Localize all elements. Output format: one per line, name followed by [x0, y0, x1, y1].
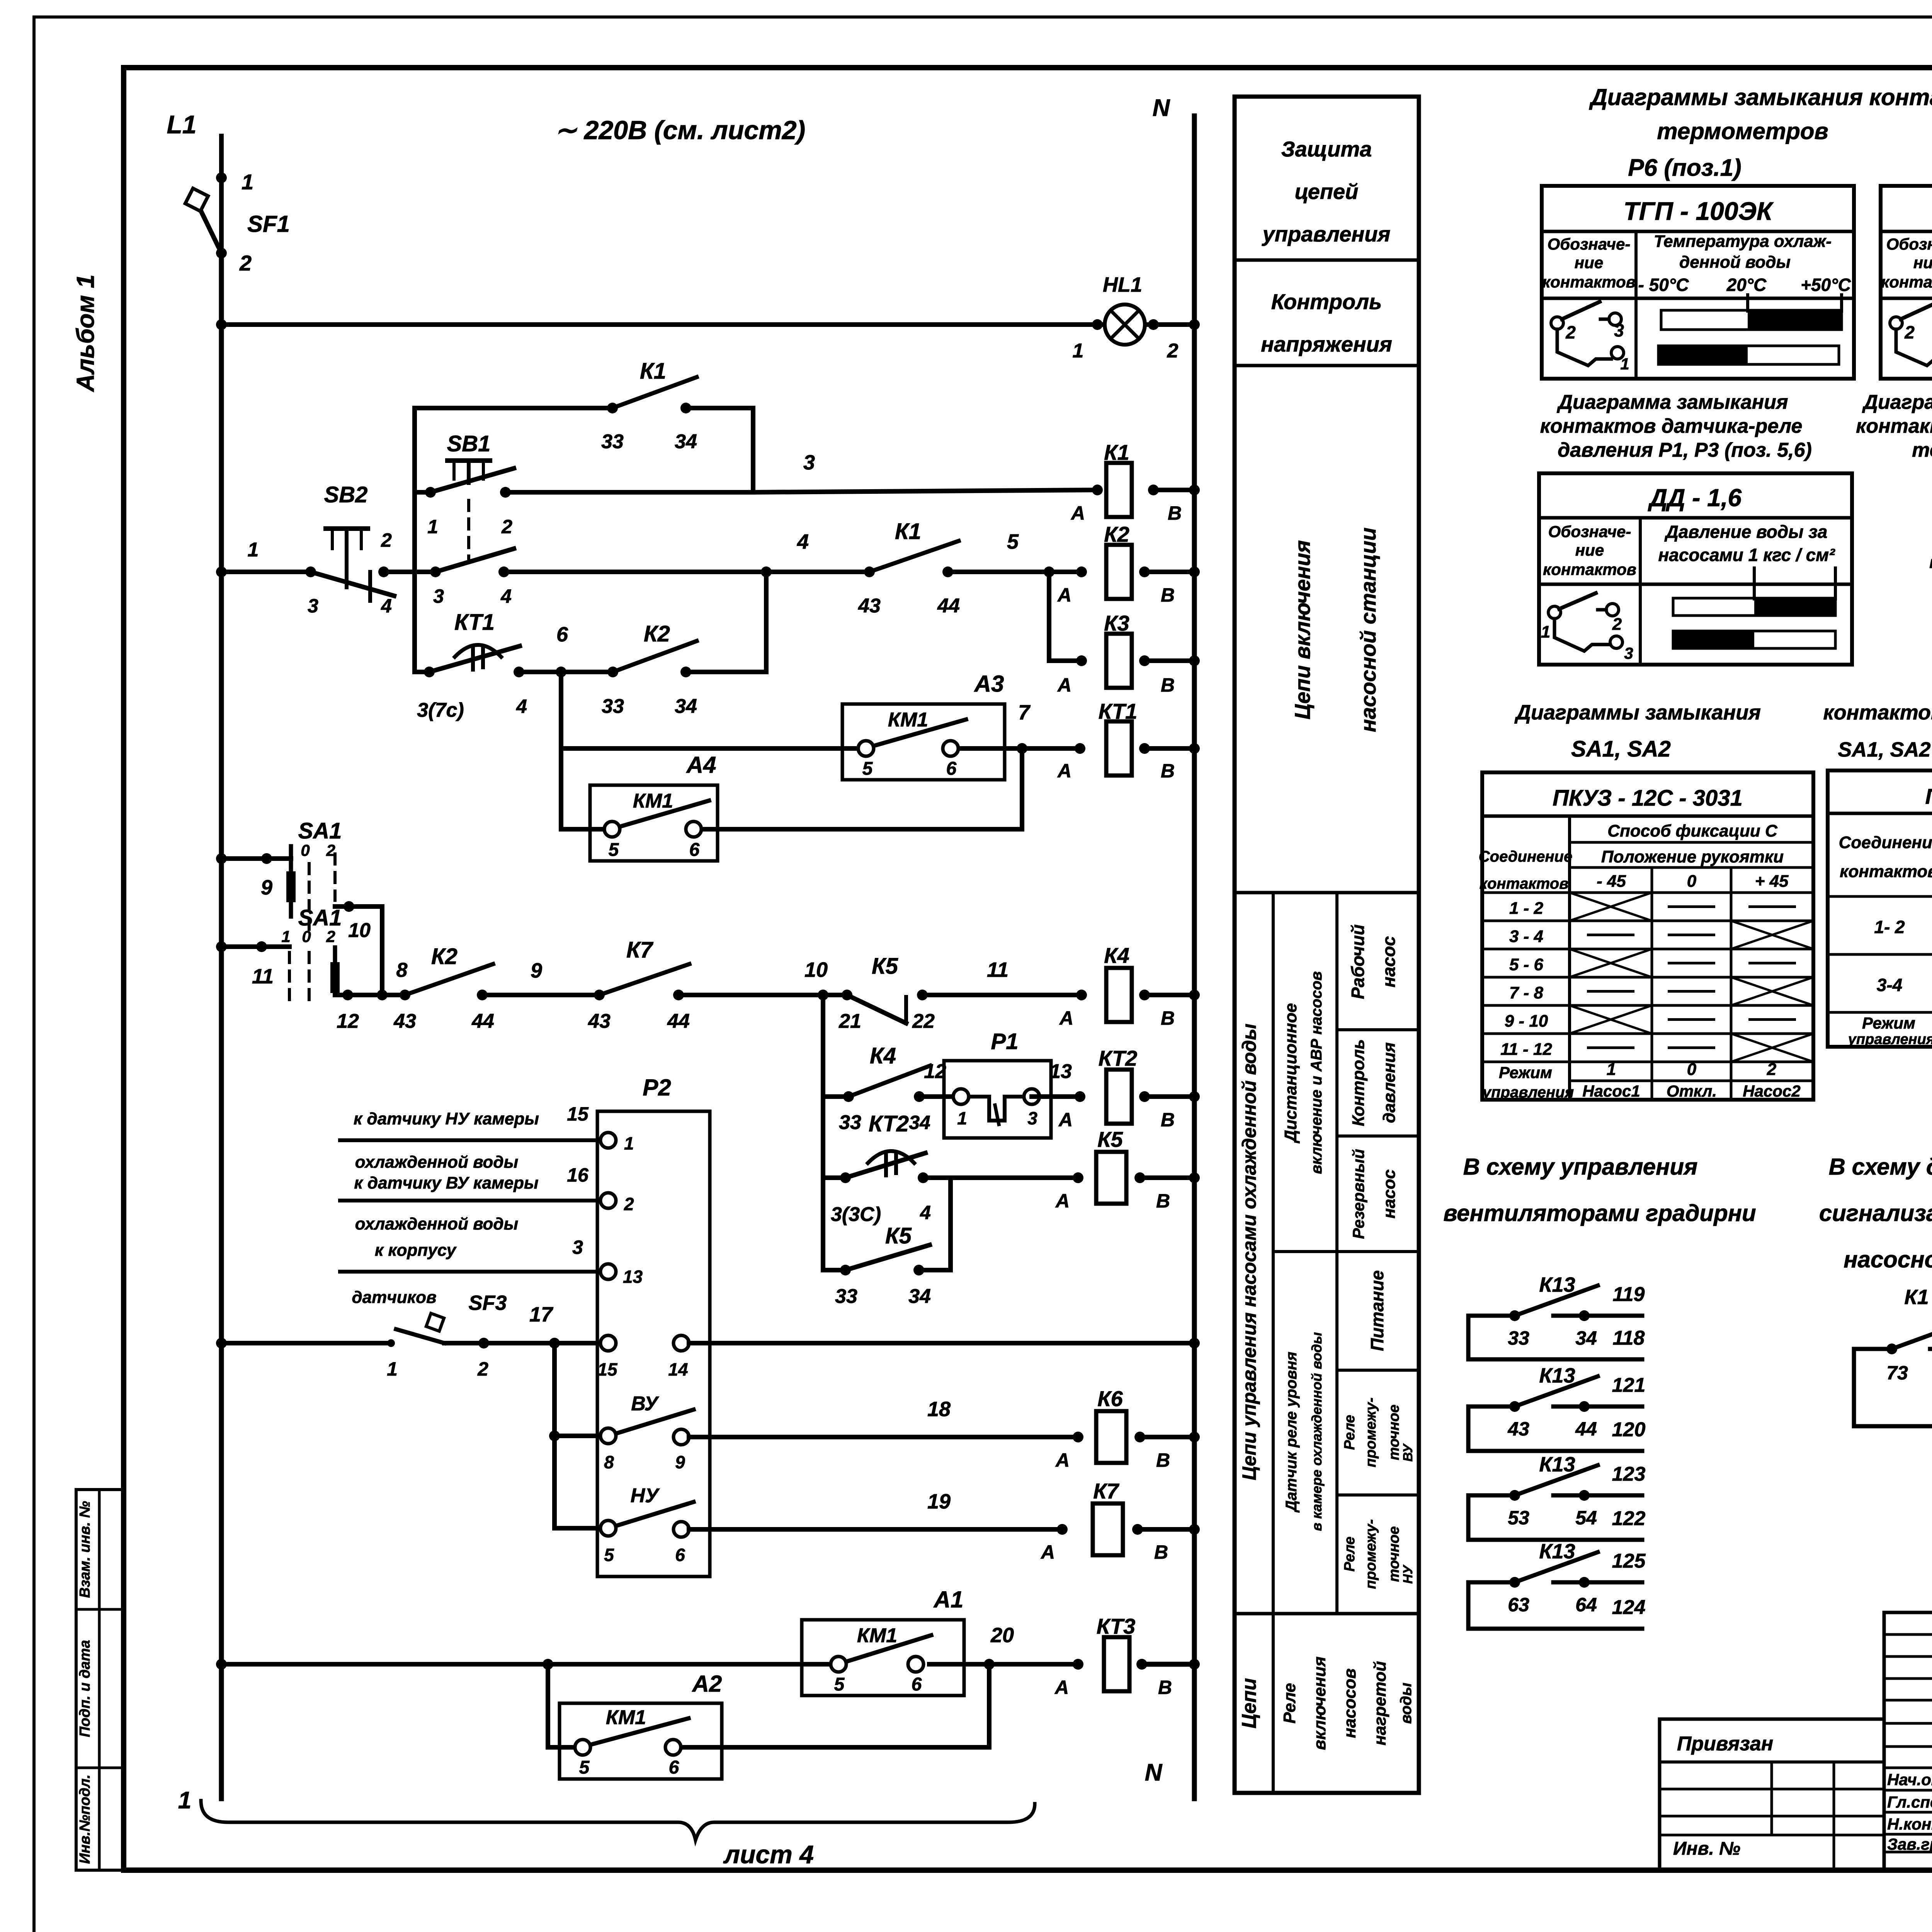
- node A K5: [1073, 1172, 1083, 1183]
- table P7 TGP-100EK: [1881, 186, 1932, 379]
- svg-text:К5: К5: [885, 1223, 912, 1248]
- wire SA1 rung 11: [216, 941, 227, 952]
- svg-text:Цепи управления насосами: Цепи управления насосами охлажденной вод…: [1238, 1024, 1260, 1480]
- svg-text:К5: К5: [872, 954, 898, 979]
- box P2 level relay: [597, 1111, 710, 1577]
- wire rung HL1: [221, 322, 1104, 327]
- box P1 pressure relay: [944, 1061, 1051, 1138]
- svg-text:119: 119: [1613, 1283, 1645, 1306]
- svg-text:1: 1: [1541, 622, 1550, 641]
- svg-text:К1: К1: [1904, 1286, 1929, 1309]
- svg-text:2: 2: [477, 1358, 488, 1380]
- svg-text:В: В: [1161, 584, 1175, 606]
- svg-text:включение и АВР насосов: включение и АВР насосов: [1308, 971, 1325, 1174]
- svg-text:А2: А2: [692, 1671, 722, 1697]
- svg-text:КТ1: КТ1: [454, 610, 495, 635]
- svg-text:1: 1: [624, 1133, 634, 1153]
- box A4: [590, 785, 718, 861]
- svg-text:34: 34: [675, 430, 697, 453]
- svg-text:34: 34: [908, 1285, 931, 1308]
- svg-text:SB2: SB2: [324, 482, 368, 507]
- svg-text:точное: точное: [1386, 1526, 1402, 1582]
- svg-text:А: А: [1057, 674, 1071, 696]
- contact K2 33-34 selfhold: [607, 667, 618, 677]
- svg-text:118: 118: [1613, 1327, 1645, 1349]
- svg-text:насосами 1 кгс / см²: насосами 1 кгс / см²: [1658, 545, 1835, 565]
- svg-text:КТ2: КТ2: [1099, 1046, 1137, 1070]
- svg-text:6: 6: [689, 840, 700, 860]
- svg-text:2: 2: [501, 516, 512, 537]
- svg-text:SB1: SB1: [447, 431, 491, 456]
- svg-text:6: 6: [669, 1757, 679, 1778]
- svg-text:Положение рукоятки: Положение рукоятки: [1601, 847, 1784, 866]
- svg-text:контактов: контактов: [1881, 273, 1932, 291]
- svg-text:6: 6: [675, 1545, 685, 1565]
- dashed SA1 section1: [308, 864, 311, 933]
- terminal P2-2: [600, 1193, 616, 1208]
- relay coil K4: [1106, 968, 1132, 1022]
- node B K6: [1134, 1432, 1145, 1442]
- svg-text:насос: насос: [1379, 936, 1399, 988]
- svg-text:1: 1: [427, 516, 438, 537]
- svg-text:В: В: [1158, 1677, 1172, 1698]
- svg-text:Соединение: Соединение: [1839, 833, 1932, 852]
- svg-text:Откл.: Откл.: [1667, 1082, 1717, 1100]
- node 17 junction: [549, 1338, 560, 1349]
- svg-text:Р6 (поз.1): Р6 (поз.1): [1628, 155, 1741, 181]
- svg-text:К5: К5: [1097, 1127, 1123, 1151]
- svg-text:124: 124: [1612, 1596, 1646, 1619]
- wire SB1 rung: [415, 490, 430, 495]
- svg-text:5: 5: [604, 1545, 614, 1565]
- wire sensor VU: [340, 1199, 600, 1202]
- svg-text:В схему диспетчерской: В схему диспетчерской: [1829, 1154, 1932, 1180]
- purpose band table frame: [1235, 97, 1419, 1793]
- svg-text:ТГП - 100ЭК: ТГП - 100ЭК: [1623, 197, 1774, 225]
- svg-text:давления: давления: [1380, 1042, 1399, 1123]
- svg-text:промежу-: промежу-: [1363, 1398, 1379, 1468]
- svg-text:2: 2: [624, 1194, 634, 1214]
- svg-text:Привязан: Привязан: [1677, 1733, 1773, 1755]
- svg-text:73: 73: [1886, 1362, 1908, 1384]
- svg-text:33: 33: [1508, 1327, 1529, 1349]
- contact KM1 in A4: [604, 821, 620, 837]
- node A K4: [1076, 990, 1087, 1000]
- svg-text:6: 6: [556, 623, 568, 646]
- svg-text:3: 3: [308, 595, 318, 617]
- svg-text:Диаграммы замыкания: Диаграммы замыкания контактов: [1589, 84, 1932, 110]
- svg-text:Соединение: Соединение: [1479, 848, 1572, 865]
- svg-text:∼ 220В (см. лист2): ∼ 220В (см. лист2): [555, 116, 805, 145]
- band divider rows: [1235, 259, 1419, 262]
- svg-text:Альбом 1: Альбом 1: [71, 274, 99, 392]
- svg-text:2: 2: [1167, 340, 1179, 362]
- wire stub to NU contact: [554, 1526, 600, 1531]
- svg-text:ВУ: ВУ: [631, 1393, 659, 1415]
- svg-text:управления: управления: [1482, 1084, 1574, 1101]
- svg-text:44: 44: [667, 1010, 690, 1032]
- contact network K1 K3 wire 126: [1852, 1349, 1856, 1426]
- svg-text:Цепи включения: Цепи включения: [1290, 540, 1315, 719]
- node branch A2: [543, 1659, 553, 1670]
- wire 9 segment: [482, 993, 599, 997]
- box A1: [802, 1620, 964, 1696]
- svg-text:- 50°С: - 50°С: [1638, 275, 1689, 295]
- wire selfhold up to KT2 rung: [919, 1268, 951, 1272]
- svg-text:1- 2: 1- 2: [1874, 917, 1905, 937]
- svg-text:6: 6: [946, 759, 957, 779]
- svg-text:контактов датчика-реле: контактов датчика-реле: [1540, 415, 1803, 437]
- relay coil K5: [1096, 1152, 1126, 1204]
- svg-text:Режим: Режим: [1499, 1063, 1552, 1082]
- node A K1: [1092, 485, 1103, 495]
- box A3: [842, 704, 1005, 780]
- svg-text:9: 9: [261, 876, 272, 899]
- svg-text:Защита: Защита: [1281, 137, 1372, 161]
- svg-text:7 - 8: 7 - 8: [1509, 983, 1544, 1002]
- svg-text:К1: К1: [640, 359, 666, 384]
- contact K4 33-34: [843, 1091, 854, 1102]
- table DD-1.6: [1539, 473, 1852, 665]
- svg-text:Взам. инв. №: Взам. инв. №: [77, 1501, 93, 1598]
- svg-text:А: А: [1054, 1677, 1069, 1698]
- wire K4 rung: [335, 993, 405, 997]
- svg-text:44: 44: [937, 595, 960, 617]
- svg-text:3(3С): 3(3С): [831, 1203, 881, 1226]
- svg-text:Инв. №: Инв. №: [1673, 1838, 1740, 1859]
- svg-text:3: 3: [433, 585, 444, 607]
- wire sensor body: [340, 1270, 600, 1274]
- dashed link SB1 poles: [467, 500, 470, 558]
- table signature grid: [1884, 1612, 1932, 1870]
- node A K7: [1057, 1524, 1068, 1535]
- wire K5 selfhold rung: [823, 1268, 845, 1272]
- contact P1: [953, 1089, 969, 1104]
- svg-text:14: 14: [668, 1359, 688, 1379]
- svg-text:3: 3: [1027, 1108, 1037, 1128]
- svg-text:КТ3: КТ3: [1097, 1614, 1135, 1638]
- switch SA1 section1: [289, 846, 293, 917]
- svg-text:3: 3: [572, 1236, 583, 1258]
- svg-text:К7: К7: [1093, 1479, 1119, 1503]
- svg-text:Питание: Питание: [1367, 1270, 1387, 1351]
- svg-text:21: 21: [838, 1010, 861, 1032]
- svg-text:КТ2: КТ2: [869, 1111, 909, 1136]
- svg-text:К4: К4: [870, 1043, 896, 1068]
- svg-text:20: 20: [990, 1624, 1014, 1647]
- node A KT3: [1073, 1659, 1083, 1670]
- svg-text:КТ1: КТ1: [1099, 699, 1137, 723]
- wire KT2 contact rung: [823, 1175, 845, 1180]
- svg-text:4: 4: [516, 696, 527, 717]
- wire between SB2 and SB1 pole2: [384, 570, 435, 574]
- pushbutton SB2 NC: [305, 566, 316, 577]
- svg-text:контактов: контактов: [1929, 553, 1932, 572]
- svg-text:SА1, SА2: SА1, SА2: [1571, 736, 1671, 762]
- contact KT2 time-delay NC: [840, 1172, 851, 1183]
- svg-text:к корпусу: к корпусу: [375, 1241, 457, 1260]
- svg-text:3: 3: [1614, 320, 1624, 340]
- svg-text:13: 13: [623, 1267, 643, 1287]
- wire K13 return 118: [1466, 1316, 1471, 1359]
- wire rung4 middle: [504, 570, 869, 574]
- node B K7: [1132, 1524, 1143, 1535]
- svg-text:4: 4: [500, 585, 512, 607]
- wire A4 rung: [561, 827, 604, 832]
- svg-text:17: 17: [529, 1303, 554, 1326]
- breaker SF3: [387, 1339, 395, 1347]
- svg-text:9 - 10: 9 - 10: [1505, 1012, 1548, 1031]
- svg-text:9: 9: [675, 1452, 685, 1472]
- contact NU in P2: [600, 1520, 616, 1536]
- svg-text:НУ: НУ: [631, 1485, 660, 1507]
- svg-text:Реле: Реле: [1342, 1537, 1358, 1572]
- contact KM1 in A1: [831, 1656, 846, 1672]
- svg-text:5: 5: [579, 1757, 590, 1778]
- node 7: [1017, 743, 1027, 754]
- svg-text:1: 1: [248, 539, 259, 561]
- svg-text:Обозначе-: Обозначе-: [1548, 522, 1631, 541]
- svg-text:5: 5: [1007, 530, 1019, 553]
- svg-text:5: 5: [834, 1674, 845, 1695]
- svg-text:Резервный: Резервный: [1349, 1149, 1367, 1239]
- svg-text:управления: управления: [1262, 222, 1391, 246]
- svg-text:121: 121: [1612, 1374, 1646, 1396]
- node B KT2: [1139, 1091, 1150, 1102]
- svg-text:3: 3: [803, 451, 815, 474]
- svg-text:SF1: SF1: [247, 211, 290, 237]
- svg-text:А: А: [1070, 502, 1085, 524]
- contact KM1 in A3: [858, 741, 874, 756]
- contact KM1 in A2: [575, 1740, 590, 1755]
- node 1 on L1: [216, 172, 227, 183]
- svg-text:точное: точное: [1386, 1405, 1402, 1460]
- contact K1 43-44: [864, 566, 875, 577]
- svg-text:20°С: 20°С: [1726, 275, 1767, 295]
- svg-text:120: 120: [1612, 1418, 1646, 1441]
- svg-text:Нач.отд.: Нач.отд.: [1887, 1770, 1932, 1789]
- wire A2 rung: [548, 1745, 575, 1750]
- svg-text:Датчик реле уровня: Датчик реле уровня: [1283, 1352, 1300, 1513]
- svg-text:SА1, SА2 постов S1, S2, S3: SА1, SА2 постов S1, S2, S3: [1838, 738, 1932, 761]
- svg-text:64: 64: [1575, 1594, 1597, 1616]
- svg-text:1: 1: [281, 927, 290, 946]
- wire K1 selfhold subrung: [415, 406, 612, 410]
- wire K13 return 122: [1466, 1495, 1471, 1540]
- wire brace to sheet4: [201, 1801, 1035, 1840]
- svg-text:0: 0: [1687, 872, 1697, 891]
- svg-text:0: 0: [1687, 1060, 1697, 1079]
- svg-text:датчиков: датчиков: [352, 1288, 436, 1307]
- svg-text:11: 11: [252, 965, 274, 988]
- svg-text:10: 10: [804, 958, 828, 981]
- svg-text:В схему управления: В схему управления: [1463, 1154, 1698, 1180]
- svg-text:1: 1: [387, 1358, 398, 1380]
- node A KT1: [1075, 743, 1085, 754]
- svg-text:3(7с): 3(7с): [417, 699, 464, 721]
- svg-text:Давление воды за: Давление воды за: [1664, 522, 1828, 542]
- svg-text:1: 1: [1620, 355, 1629, 373]
- node A KT2: [1075, 1091, 1085, 1102]
- svg-text:А: А: [1055, 1449, 1070, 1471]
- svg-text:ние: ние: [1575, 253, 1603, 272]
- svg-text:122: 122: [1612, 1507, 1646, 1530]
- svg-text:сигнализации( Включение: сигнализации( Включение: [1819, 1200, 1932, 1226]
- svg-text:Контроль: Контроль: [1271, 289, 1382, 314]
- wire external vertical 17: [552, 1343, 557, 1528]
- wire vertical to SB1 rung: [751, 408, 755, 492]
- svg-text:К3: К3: [1104, 611, 1129, 635]
- wire vertical node6 down: [559, 672, 563, 829]
- svg-text:15: 15: [597, 1359, 618, 1379]
- wire K1 branch vertical: [412, 408, 417, 672]
- svg-text:А3: А3: [974, 671, 1004, 697]
- svg-text:к датчику ВУ камеры: к датчику ВУ камеры: [354, 1173, 538, 1192]
- svg-text:Температура охлаж-: Температура охлаж-: [1654, 232, 1832, 251]
- wire bottom rung: [216, 1659, 227, 1670]
- svg-text:нагретой: нагретой: [1371, 1661, 1389, 1745]
- table privyazan box: [1660, 1719, 1884, 1870]
- svg-text:2: 2: [239, 251, 252, 275]
- node B K4: [1139, 990, 1150, 1000]
- node A K6: [1073, 1432, 1083, 1442]
- node A K2: [1076, 566, 1087, 577]
- svg-text:8: 8: [396, 959, 408, 981]
- wire A3 rung: [561, 746, 858, 751]
- svg-text:Реле: Реле: [1280, 1683, 1299, 1723]
- svg-text:ние: ние: [1575, 541, 1604, 559]
- contact K2 43-44: [400, 990, 410, 1000]
- svg-text:Инв.№подл.: Инв.№подл.: [77, 1774, 93, 1864]
- svg-text:А: А: [1057, 760, 1071, 782]
- wire N rail: [1192, 116, 1197, 1799]
- svg-text:5: 5: [862, 759, 873, 779]
- svg-text:В: В: [1161, 674, 1175, 696]
- svg-text:лист 4: лист 4: [723, 1840, 814, 1869]
- svg-text:6: 6: [912, 1674, 922, 1695]
- svg-text:2: 2: [1565, 322, 1576, 342]
- svg-text:ВУ: ВУ: [1401, 1443, 1415, 1461]
- svg-text:2: 2: [1904, 322, 1915, 342]
- table PKUZ-12S-3031: [1482, 772, 1813, 1100]
- svg-text:5 - 6: 5 - 6: [1509, 955, 1544, 974]
- svg-text:ние: ние: [1913, 253, 1932, 272]
- svg-text:Рабочий: Рабочий: [1348, 924, 1368, 999]
- table P6 TGP-100EK: [1542, 186, 1854, 379]
- lamp HL1: [1105, 304, 1145, 345]
- svg-text:34: 34: [675, 695, 697, 718]
- svg-text:контактов: контактов: [1480, 875, 1569, 892]
- svg-text:Подп. и дата: Подп. и дата: [77, 1640, 93, 1737]
- svg-text:13: 13: [1049, 1060, 1072, 1083]
- relay coil K2: [1106, 545, 1132, 599]
- svg-text:1 - 2: 1 - 2: [1509, 899, 1544, 918]
- svg-text:напряжения: напряжения: [1261, 332, 1392, 356]
- svg-text:К13: К13: [1539, 1273, 1575, 1296]
- svg-text:контактов переключа-: контактов переключа-: [1856, 415, 1932, 437]
- svg-text:Дистанционное: Дистанционное: [1281, 1003, 1300, 1144]
- svg-text:НУ: НУ: [1401, 1564, 1415, 1584]
- svg-text:1: 1: [241, 170, 253, 194]
- wire vertical 10 down: [380, 906, 384, 995]
- svg-text:7: 7: [1018, 701, 1031, 724]
- wire K13 return 124: [1466, 1582, 1471, 1629]
- svg-text:19: 19: [927, 1490, 951, 1513]
- wire K2 selfhold up: [686, 670, 766, 674]
- band inner verticals: [1272, 893, 1275, 1793]
- svg-text:18: 18: [927, 1398, 951, 1421]
- svg-text:1: 1: [957, 1108, 967, 1128]
- svg-text:К13: К13: [1539, 1364, 1575, 1387]
- svg-text:9: 9: [531, 959, 542, 982]
- svg-text:воды: воды: [1398, 1683, 1415, 1724]
- node B KT1: [1139, 743, 1150, 754]
- relay coil K7: [1093, 1503, 1123, 1555]
- svg-text:К7: К7: [626, 937, 654, 963]
- wire rung 19: [689, 1527, 1062, 1532]
- svg-text:Р1: Р1: [991, 1029, 1019, 1054]
- svg-text:Р2: Р2: [643, 1075, 671, 1100]
- contact symbol DD: [1548, 606, 1561, 619]
- svg-text:- 45: - 45: [1597, 872, 1626, 891]
- svg-text:Диаграммы замыкания: Диаграммы замыкания: [1514, 701, 1761, 724]
- svg-text:Цепи: Цепи: [1238, 1678, 1260, 1728]
- wire 10 segment: [679, 993, 847, 997]
- contact K13 63-64: [1468, 1580, 1515, 1585]
- svg-text:11 - 12: 11 - 12: [1500, 1040, 1552, 1059]
- node B K2: [1139, 566, 1150, 577]
- svg-text:0: 0: [301, 841, 310, 859]
- wire rung4 from rail: [216, 566, 227, 577]
- svg-text:16: 16: [567, 1164, 589, 1186]
- svg-text:ПЕ031: ПЕ031: [1925, 784, 1932, 808]
- wire rung K1 coil: [753, 490, 1097, 492]
- svg-text:насосной станции: насосной станции: [1356, 527, 1380, 732]
- svg-text:включения: включения: [1310, 1656, 1329, 1750]
- svg-text:Насос1: Насос1: [1582, 1082, 1640, 1100]
- svg-text:ПКУЗ - 12С - 3031: ПКУЗ - 12С - 3031: [1553, 786, 1743, 811]
- wire stub to VU contact: [554, 1434, 600, 1438]
- wire SF3 rung: [216, 1338, 227, 1349]
- terminal P2-13: [600, 1264, 616, 1279]
- svg-text:В: В: [1156, 1449, 1170, 1471]
- svg-text:43: 43: [393, 1010, 416, 1032]
- svg-text:А: А: [1055, 1190, 1070, 1212]
- svg-text:15: 15: [567, 1103, 589, 1125]
- node 6 junction: [556, 667, 566, 677]
- wire rung4 to K2 coil: [948, 570, 1082, 574]
- svg-text:1: 1: [178, 1787, 191, 1814]
- svg-text:цепей: цепей: [1295, 179, 1359, 204]
- contact K13 33-34: [1468, 1314, 1515, 1318]
- svg-text:К2: К2: [1104, 522, 1129, 546]
- wire KT1 rung middle: [519, 670, 613, 674]
- svg-text:123: 123: [1612, 1463, 1646, 1485]
- svg-text:А1: А1: [933, 1587, 964, 1612]
- node SF3-2: [478, 1338, 489, 1349]
- svg-text:В: В: [1161, 1007, 1175, 1029]
- contact K5 NC 21-22: [842, 990, 852, 1000]
- svg-text:8: 8: [604, 1452, 614, 1472]
- svg-text:+ 45: + 45: [1755, 872, 1789, 891]
- svg-text:3-4: 3-4: [1877, 975, 1902, 995]
- svg-text:54: 54: [1575, 1507, 1597, 1529]
- band sub dividers right column: [1337, 1028, 1419, 1031]
- svg-text:Контроль: Контроль: [1349, 1039, 1368, 1126]
- svg-text:43: 43: [1507, 1418, 1529, 1440]
- svg-text:насос: насос: [1380, 1170, 1399, 1219]
- svg-text:43: 43: [858, 595, 881, 617]
